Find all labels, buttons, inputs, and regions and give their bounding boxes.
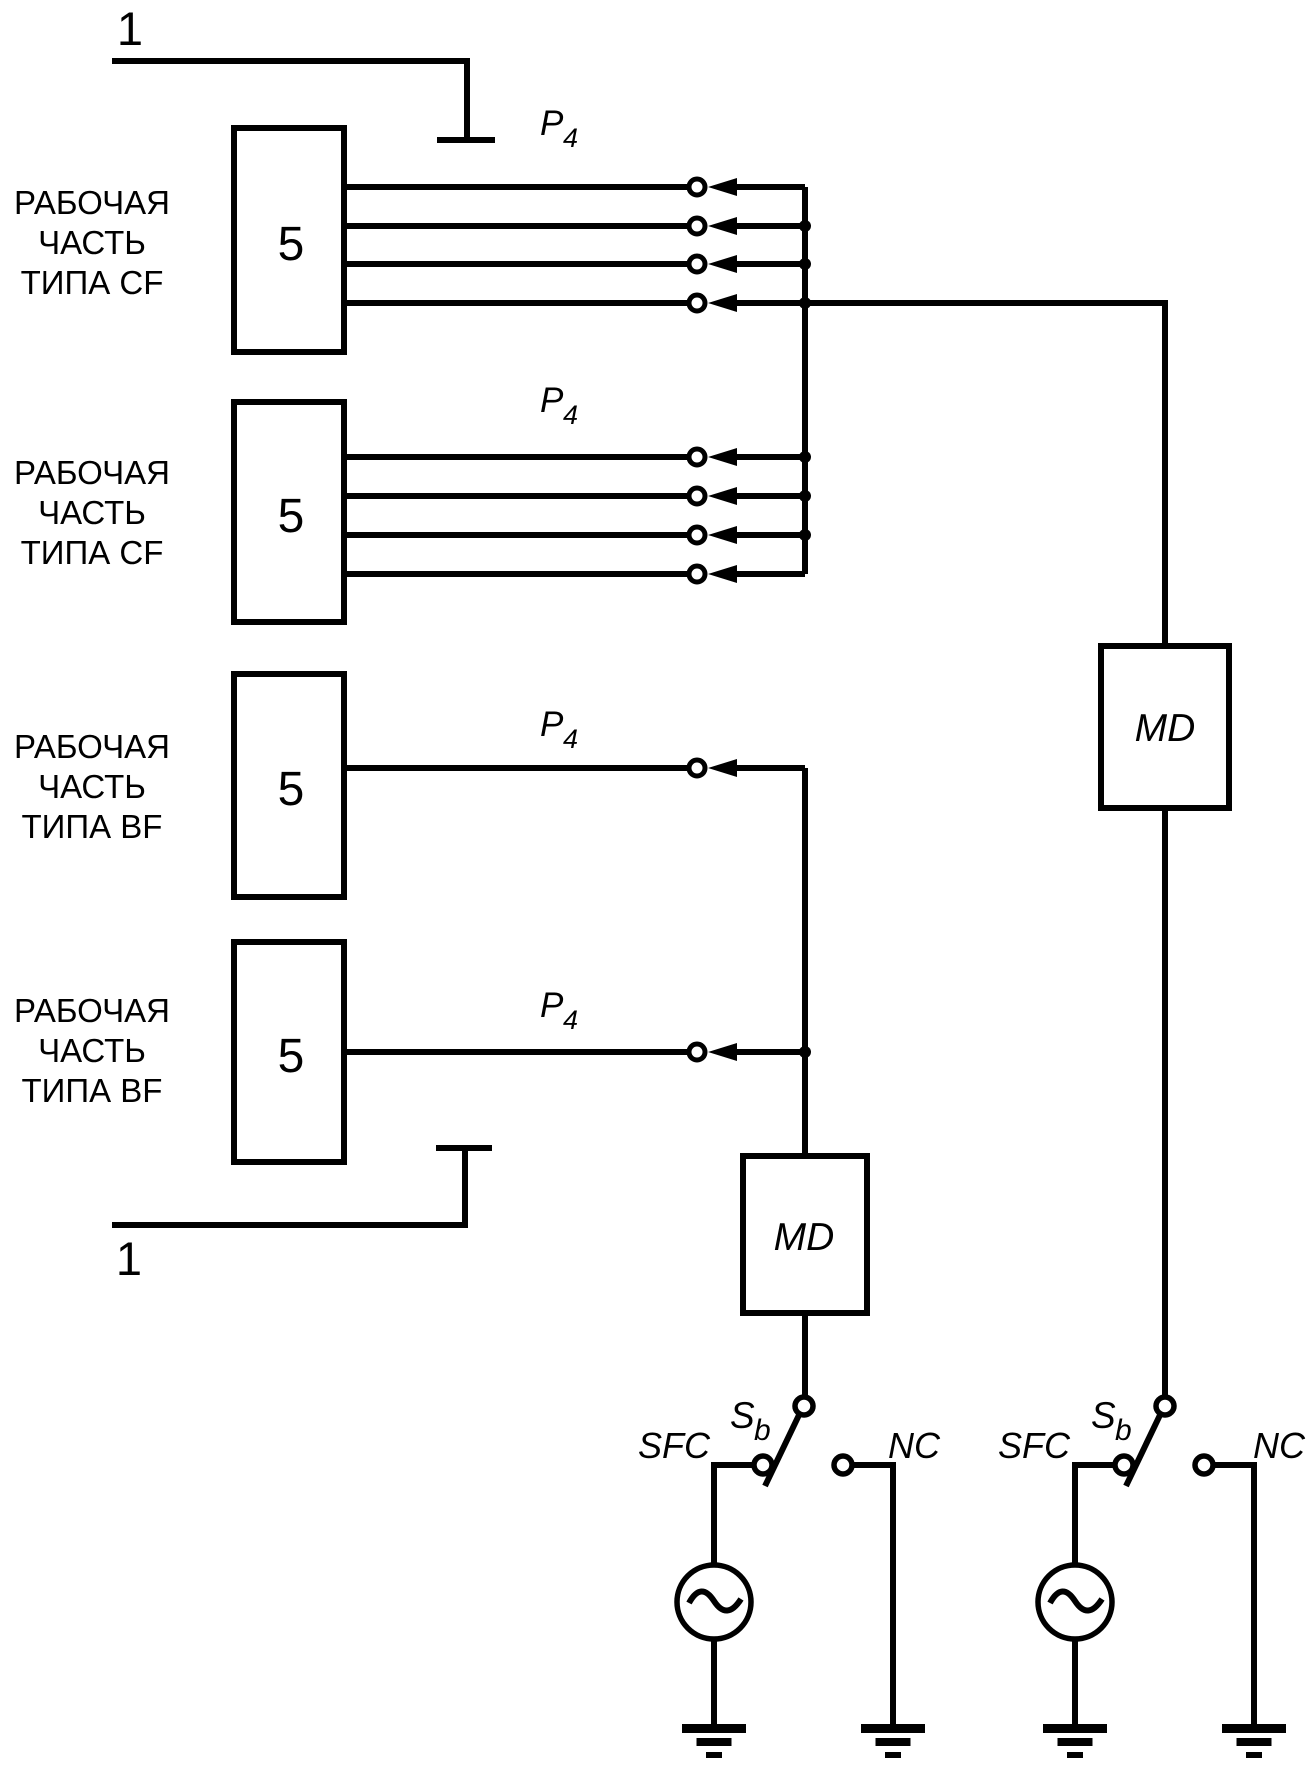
label Sb (left): [730, 1395, 771, 1447]
NC terminal (right): [1195, 1456, 1213, 1474]
bus wire (CF column): [802, 187, 808, 574]
wire CF1 row2 to bus: [735, 223, 805, 229]
svg-text:ЧАСТЬ: ЧАСТЬ: [38, 768, 146, 805]
arrow CF1 row3: [708, 255, 737, 273]
svg-text:РАБОЧАЯ: РАБОЧАЯ: [14, 184, 170, 221]
label РАБОЧАЯ ЧАСТЬ ТИПА BF (#1): [14, 728, 170, 845]
junction BF2: [799, 1046, 811, 1058]
label P4 (#1): [540, 104, 578, 153]
wire CF1 row1 from box: [344, 184, 689, 190]
svg-text:S: S: [730, 1395, 755, 1436]
svg-text:ЧАСТЬ: ЧАСТЬ: [38, 224, 146, 261]
switch Sb (left) SFC terminal: [754, 1456, 772, 1474]
wire BF2 from box: [344, 1049, 689, 1055]
wire from enclosure contact to node 1 (bottom): [112, 1151, 465, 1225]
AC source (left SFC): [677, 1565, 751, 1639]
terminal circle CF1 row1: [689, 179, 705, 195]
wire CF1 row2 from box: [344, 223, 689, 229]
MD box (left): [743, 1156, 867, 1313]
svg-text:b: b: [1115, 1414, 1132, 1447]
svg-text:1: 1: [117, 2, 143, 55]
svg-text:SFC: SFC: [998, 1425, 1071, 1466]
svg-text:SFC: SFC: [638, 1425, 711, 1466]
junction CF1 row4: [799, 297, 811, 309]
switch Sb (right) pole terminal: [1156, 1397, 1174, 1415]
label P4 (#3): [540, 705, 578, 754]
wire MD left to switch: [802, 1313, 808, 1395]
wire NC right to ground: [1215, 1465, 1254, 1724]
wire CF2 row3 from box: [344, 532, 689, 538]
junction CF1 row3: [799, 258, 811, 270]
svg-text:MD: MD: [1135, 707, 1196, 750]
applied part box 5 (CF #1): [234, 128, 344, 352]
wire CF2 row1 from box: [344, 454, 689, 460]
svg-text:b: b: [754, 1414, 771, 1447]
applied part box 5 (BF #1): [234, 674, 344, 897]
wire CF1 row4 from box: [344, 300, 689, 306]
svg-text:4: 4: [563, 400, 578, 430]
switch Sb (left) blade: [765, 1415, 799, 1486]
wire CF2 row1 to bus: [735, 454, 805, 460]
junction CF2 row1: [799, 451, 811, 463]
arrow BF1: [708, 759, 737, 777]
svg-text:NC: NC: [1253, 1425, 1306, 1466]
switch Sb (right) blade: [1126, 1415, 1160, 1486]
svg-text:5: 5: [278, 490, 305, 543]
svg-text:ТИПА BF: ТИПА BF: [22, 1072, 163, 1109]
label РАБОЧАЯ ЧАСТЬ ТИПА BF (#2): [14, 992, 170, 1109]
terminal circle CF2 row4: [689, 566, 705, 582]
wire CF2 row2 from box: [344, 493, 689, 499]
label РАБОЧАЯ ЧАСТЬ ТИПА CF (#2): [14, 454, 170, 571]
junction CF2 row2: [799, 490, 811, 502]
svg-text:ЧАСТЬ: ЧАСТЬ: [38, 494, 146, 531]
arrow CF2 row2: [708, 487, 737, 505]
arrow CF2 row3: [708, 526, 737, 544]
wire CF2 row4 to bus corner: [735, 571, 805, 577]
svg-text:S: S: [1091, 1395, 1116, 1436]
label Sb (right): [1091, 1395, 1132, 1447]
arrow CF1 row1: [708, 178, 737, 196]
wire NC left to ground: [854, 1465, 893, 1724]
label РАБОЧАЯ ЧАСТЬ ТИПА CF (#1): [14, 184, 170, 301]
AC source (right SFC): [1038, 1565, 1112, 1639]
svg-text:ТИПА CF: ТИПА CF: [21, 264, 164, 301]
svg-text:РАБОЧАЯ: РАБОЧАЯ: [14, 992, 170, 1029]
ground (left NC): [861, 1724, 925, 1758]
terminal circle BF1: [689, 760, 705, 776]
svg-text:MD: MD: [774, 1216, 835, 1259]
MD box (right): [1101, 646, 1229, 808]
terminal circle CF2 row3: [689, 527, 705, 543]
arrow CF2 row1: [708, 448, 737, 466]
wire CF1 row3 from box: [344, 261, 689, 267]
wire CF2 row2 to bus: [735, 493, 805, 499]
wire CF2 row3 to bus: [735, 532, 805, 538]
svg-text:ТИПА BF: ТИПА BF: [22, 808, 163, 845]
wire BF1 from box: [344, 765, 689, 771]
svg-text:ТИПА CF: ТИПА CF: [21, 534, 164, 571]
svg-text:4: 4: [563, 123, 578, 153]
svg-text:P: P: [540, 381, 564, 420]
arrow CF1 row4: [708, 294, 737, 312]
svg-text:5: 5: [278, 763, 305, 816]
svg-text:ЧАСТЬ: ЧАСТЬ: [38, 1032, 146, 1069]
wire AC source to ground (right SFC): [1072, 1639, 1078, 1724]
terminal circle CF2 row1: [689, 449, 705, 465]
svg-text:P: P: [540, 986, 564, 1025]
svg-text:P: P: [540, 104, 564, 143]
svg-text:5: 5: [278, 1030, 305, 1083]
wire BF2 to bus: [735, 1049, 805, 1055]
svg-text:5: 5: [278, 218, 305, 271]
wire SFC right to AC source: [1075, 1465, 1113, 1565]
ground (left SFC): [682, 1724, 746, 1758]
wire AC source to ground (left SFC): [711, 1639, 717, 1724]
wire CF1 row4 to bus: [735, 300, 805, 306]
svg-text:4: 4: [563, 724, 578, 754]
wire BF1 to bus corner: [735, 765, 805, 771]
terminal circle BF2: [689, 1044, 705, 1060]
label P4 (#4): [540, 986, 578, 1035]
applied part box 5 (CF #2): [234, 402, 344, 622]
arrow CF1 row2: [708, 217, 737, 235]
label P4 (#2): [540, 381, 578, 430]
junction CF2 row3: [799, 529, 811, 541]
svg-text:РАБОЧАЯ: РАБОЧАЯ: [14, 454, 170, 491]
wire MD right to switch: [1162, 811, 1168, 1395]
wire CF1 row4 to right column: [805, 303, 1165, 643]
enclosure contact bar (top): [437, 137, 495, 143]
svg-text:NC: NC: [888, 1425, 941, 1466]
arrow CF2 row4: [708, 565, 737, 583]
bus wire (BF column): [802, 768, 808, 1156]
ground (right SFC): [1043, 1724, 1107, 1758]
terminal circle CF1 row4: [689, 295, 705, 311]
wire CF2 row4 from box: [344, 571, 689, 577]
wire CF1 row1 to bus corner: [735, 184, 805, 190]
switch Sb (right) SFC terminal: [1115, 1456, 1133, 1474]
enclosure contact bar (bottom): [436, 1145, 492, 1151]
wire CF1 row3 to bus: [735, 261, 805, 267]
terminal circle CF1 row2: [689, 218, 705, 234]
svg-text:P: P: [540, 705, 564, 744]
svg-text:4: 4: [563, 1005, 578, 1035]
ground (right NC): [1222, 1724, 1286, 1758]
junction CF1 row2: [799, 220, 811, 232]
svg-text:1: 1: [116, 1232, 142, 1285]
switch Sb (left) pole terminal: [795, 1397, 813, 1415]
svg-text:РАБОЧАЯ: РАБОЧАЯ: [14, 728, 170, 765]
NC terminal (left): [834, 1456, 852, 1474]
arrow BF2: [708, 1043, 737, 1061]
wire SFC left to AC source: [714, 1465, 752, 1565]
terminal circle CF2 row2: [689, 488, 705, 504]
wire from node 1 to enclosure contact (top): [112, 61, 467, 137]
applied part box 5 (BF #2): [234, 942, 344, 1162]
terminal circle CF1 row3: [689, 256, 705, 272]
